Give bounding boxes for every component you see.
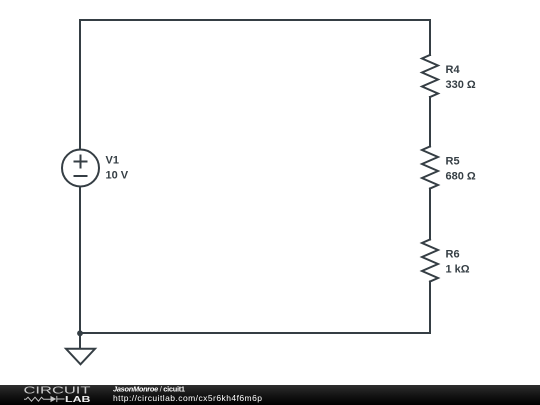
svg-text:R4: R4 xyxy=(446,64,461,76)
svg-text:R5: R5 xyxy=(446,156,460,168)
svg-text:10 V: 10 V xyxy=(106,170,129,182)
svg-text:R6: R6 xyxy=(446,249,460,261)
svg-text:http://circuitlab.com/cx5r6kh4: http://circuitlab.com/cx5r6kh4f6m6p xyxy=(113,393,262,403)
svg-text:680 Ω: 680 Ω xyxy=(446,171,476,183)
svg-text:LAB: LAB xyxy=(65,394,91,404)
svg-text:V1: V1 xyxy=(106,155,119,167)
svg-text:1 kΩ: 1 kΩ xyxy=(446,264,470,276)
svg-text:330 Ω: 330 Ω xyxy=(446,79,476,91)
